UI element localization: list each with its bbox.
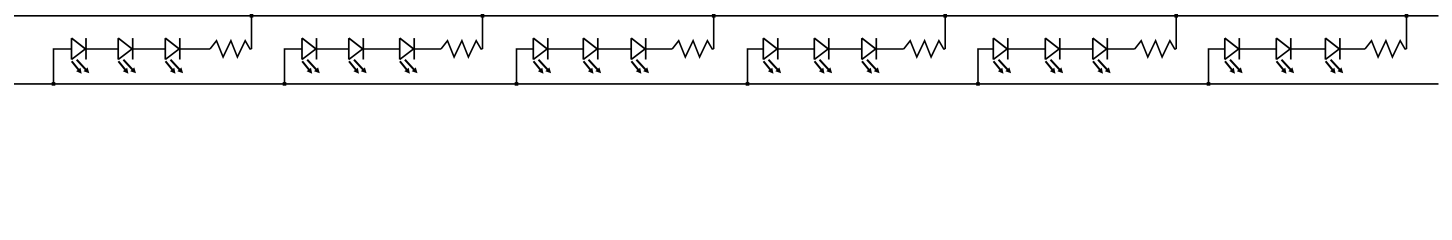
wire [86,48,118,50]
wire [317,48,349,50]
LED D5 [349,38,367,74]
wire [1060,48,1093,50]
junction on top rail (branch 2) [481,14,485,18]
wire [876,48,903,50]
resistor R4 [904,41,946,57]
LED D10 [763,38,781,74]
resistor R3 [672,41,714,57]
wire: branch 3 to top rail [713,16,715,49]
LED D2 [118,38,136,74]
wire: branch 5 riser from bottom rail [978,49,993,84]
wire [180,48,210,50]
junction on top rail (branch 1) [250,14,254,18]
junction on top rail (branch 6) [1405,14,1409,18]
wire [829,48,862,50]
LED D9 [631,38,649,74]
LED D16 [1225,38,1243,74]
wire [1107,48,1134,50]
junction on bottom rail (branch 3) [515,82,519,86]
junction on bottom rail (branch 4) [746,82,750,86]
junction on bottom rail (branch 2) [283,82,287,86]
wire: branch 6 riser from bottom rail [1209,49,1225,84]
wire: branch 2 to top rail [482,16,484,49]
wire [133,48,166,50]
LED D17 [1276,38,1294,74]
junction on bottom rail (branch 6) [1207,82,1211,86]
wire [414,48,441,50]
LED D3 [165,38,183,74]
LED D6 [400,38,418,74]
resistor R5 [1135,41,1177,57]
wire: top supply rail [14,15,1439,17]
junction on top rail (branch 5) [1174,14,1178,18]
wire [646,48,673,50]
wire [1340,48,1365,50]
wire [1291,48,1326,50]
wire: branch 3 riser from bottom rail [517,49,534,84]
wire: branch 6 to top rail [1406,16,1408,49]
wire [1239,48,1276,50]
LED D7 [533,38,551,74]
junction on bottom rail (branch 1) [52,82,56,86]
resistor R6 [1365,41,1407,57]
wire [363,48,399,50]
wire: branch 5 to top rail [1175,16,1177,49]
LED D4 [302,38,320,74]
LED D14 [1045,38,1063,74]
wire: branch 4 riser from bottom rail [748,49,764,84]
resistor R1 [210,41,252,57]
LED D13 [993,38,1011,74]
wire [548,48,584,50]
LED D18 [1325,38,1343,74]
LED D8 [583,38,601,74]
LED D15 [1093,38,1111,74]
wire: branch 2 riser from bottom rail [285,49,303,84]
wire [1008,48,1046,50]
wire: branch 1 riser from bottom rail [54,49,72,84]
junction on top rail (branch 4) [943,14,947,18]
LED D1 [72,38,90,74]
resistor R2 [441,41,483,57]
junction on bottom rail (branch 5) [976,82,980,86]
junction on top rail (branch 3) [712,14,716,18]
wire: branch 4 to top rail [944,16,946,49]
wire: bottom return rail [14,83,1439,85]
wire: branch 1 to top rail [251,16,253,49]
wire [598,48,631,50]
LED D11 [814,38,832,74]
LED D12 [862,38,880,74]
wire [778,48,815,50]
